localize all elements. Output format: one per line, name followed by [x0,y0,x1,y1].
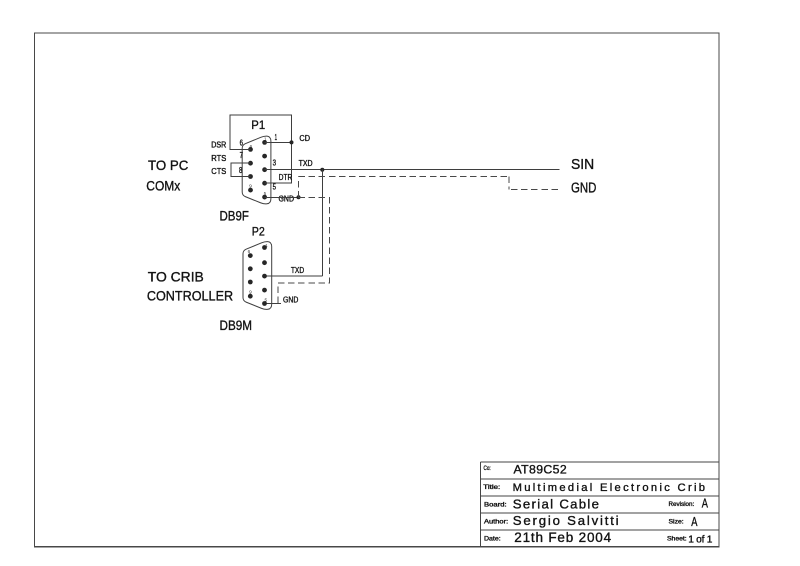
P1 pin 1 [262,140,267,145]
svg-text:TXD: TXD [291,266,304,275]
P2 pin 7 [248,266,253,271]
P1 pin 2 [262,154,267,159]
svg-text:9: 9 [249,290,252,295]
title block frame [481,462,719,547]
svg-text:CONTROLLER: CONTROLLER [147,287,233,303]
svg-text:TXD: TXD [299,159,313,168]
P2 pin 9 [248,294,253,299]
svg-text:Serial Cable: Serial Cable [513,497,599,512]
wire DSR-CD-DTR loop [230,115,291,183]
svg-text:Date:: Date: [484,537,501,543]
svg-text:GND: GND [279,194,295,203]
connector P2 shell [243,242,272,310]
P2 pin 8 [248,280,253,285]
P2 pin 6 [248,253,253,258]
junction TXD node [320,168,324,172]
wire P2 TXD stub [265,275,323,277]
connector P1 shell [242,136,271,204]
svg-text:P2: P2 [252,224,265,238]
P1 pin 9 [248,188,253,193]
svg-text:5: 5 [273,182,277,191]
P2 pin 5 [262,301,267,306]
P2 pin 4 [262,288,267,293]
svg-text:DB9M: DB9M [220,318,253,333]
svg-text:GND: GND [571,180,597,197]
P1 pin 6 [248,147,253,152]
svg-text:Title:: Title: [483,485,500,491]
svg-text:CTS: CTS [211,167,226,176]
svg-text:1: 1 [264,137,267,142]
svg-text:AT89C52: AT89C52 [514,463,567,477]
P2 pin 3 [262,274,267,279]
title block field Board [484,497,708,512]
svg-text:TO PC: TO PC [148,157,188,173]
svg-text:8: 8 [239,166,243,175]
svg-text:Size:: Size: [669,519,685,525]
wire GND dashed step down [508,177,510,190]
title block field Author [484,513,698,529]
junction GND node [297,195,301,199]
svg-text:A: A [691,515,698,529]
svg-text:A: A [702,497,709,511]
svg-text:TO CRIB: TO CRIB [148,269,204,285]
svg-text:6: 6 [250,144,253,149]
wire RTS-CTS loop [231,163,251,176]
P2 pin 1 [262,245,267,250]
P1 pin 5 [262,195,267,200]
wire P1 GND stub [265,196,299,198]
svg-text:DTR: DTR [279,173,293,182]
svg-text:CD: CD [299,134,310,143]
svg-text:1 of 1: 1 of 1 [688,534,713,545]
P1 pin 7 [248,161,253,166]
svg-text:7: 7 [240,151,244,160]
svg-text:6: 6 [240,138,244,147]
svg-text:9: 9 [249,184,252,189]
wire TXD vertical P1 to P2 [321,170,323,277]
svg-text:21th Feb 2004: 21th Feb 2004 [514,530,611,545]
wire GND dashed right 2 [511,189,558,191]
svg-text:6: 6 [248,249,251,254]
wire GND dashed right [299,176,510,178]
P1 pin 3 [262,167,267,172]
P2 pin 2 [262,260,267,265]
svg-text:P1: P1 [251,118,265,132]
title block field Title [483,482,705,494]
P1 pin 8 [248,174,253,179]
svg-text:5: 5 [264,191,267,196]
wire TXD main to SIN [265,169,560,171]
svg-text:Board:: Board: [484,502,507,508]
title block field Co [484,463,567,477]
svg-text:DB9F: DB9F [220,209,249,224]
svg-text:Author:: Author: [484,520,509,526]
svg-text:SIN: SIN [571,156,594,173]
svg-text:DSR: DSR [211,141,226,150]
svg-text:GND: GND [283,296,298,305]
svg-text:1: 1 [275,133,278,142]
note TO PC [146,157,188,193]
svg-text:5: 5 [265,298,268,303]
wire pin1 to CD junction [265,141,292,143]
note TO CRIB CONTROLLER [147,269,233,304]
title block field Date [484,530,713,545]
junction CD node [290,140,294,144]
wire GND dashed up [298,177,300,198]
svg-text:COMx: COMx [146,178,180,194]
svg-text:Co:: Co: [484,466,491,472]
wire P2 GND stub [265,303,282,305]
svg-text:3: 3 [273,158,277,167]
wire GND dashed branch to P2 [278,197,330,303]
svg-text:Revision:: Revision: [669,502,695,508]
svg-text:RTS: RTS [211,154,226,163]
P1 pin 4 [262,181,267,186]
svg-text:Sheet:: Sheet: [667,537,687,543]
svg-text:1: 1 [265,243,268,248]
